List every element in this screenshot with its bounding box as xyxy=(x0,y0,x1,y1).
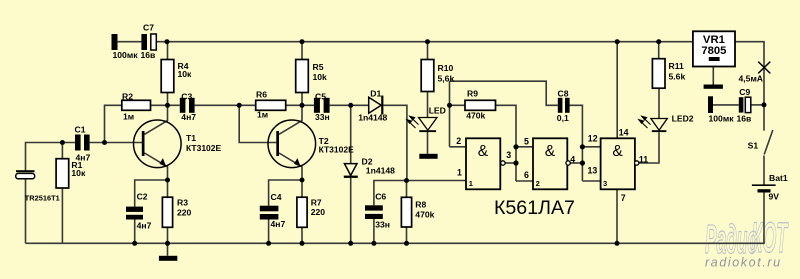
junction dots xyxy=(165,39,170,44)
wire pin5 xyxy=(516,146,533,148)
svg-text:C7: C7 xyxy=(143,23,154,33)
watermark РадиоКОТ xyxy=(705,213,789,262)
svg-text:C5: C5 xyxy=(315,92,326,102)
svg-text:R3: R3 xyxy=(177,197,188,207)
diode D1 cathode bar xyxy=(381,96,383,115)
diode D1 xyxy=(369,97,382,113)
svg-text:4н7: 4н7 xyxy=(181,112,196,122)
transistor T2 circle xyxy=(268,120,316,168)
wire C6 branch xyxy=(374,181,466,206)
LED1 triangle xyxy=(419,118,437,131)
wire LED2 anode to R11 xyxy=(658,88,660,118)
svg-text:КТ3102Е: КТ3102Е xyxy=(319,145,355,155)
capacitor C1 plates xyxy=(75,135,81,151)
capacitor C7 plates xyxy=(112,34,118,50)
wire C1 to base T1 xyxy=(90,142,142,144)
transistor T1 circle xyxy=(134,120,182,168)
wire T1 emitter xyxy=(145,153,168,180)
ground bar LED1 xyxy=(419,154,437,159)
wire T2 collector xyxy=(279,105,302,134)
svg-text:4н7: 4н7 xyxy=(271,219,286,229)
resistor R3 xyxy=(162,197,172,227)
svg-text:R7: R7 xyxy=(311,197,322,207)
svg-text:TR2516T1: TR2516T1 xyxy=(25,194,60,203)
svg-text:13: 13 xyxy=(588,166,598,176)
electrolytic C7 hollow plate xyxy=(151,34,157,50)
resistor R6 xyxy=(256,100,286,110)
capacitor C5 plates xyxy=(314,98,320,113)
wire C9 right xyxy=(751,104,764,106)
svg-text:7: 7 xyxy=(621,193,626,203)
resistor R8 xyxy=(401,197,411,227)
svg-text:R8: R8 xyxy=(415,199,426,209)
svg-text:2: 2 xyxy=(456,136,461,146)
wire R4 leads xyxy=(167,42,169,60)
wire pin2 xyxy=(450,146,467,148)
electrolytic C9 hollow plate xyxy=(745,97,751,112)
wire battery to rail xyxy=(763,193,765,244)
svg-text:R2: R2 xyxy=(122,92,133,102)
wire gate3 out to LED2 xyxy=(639,132,659,163)
wire R1 leads xyxy=(61,143,63,159)
svg-text:220: 220 xyxy=(311,207,326,217)
wire C3 right to T2 base node xyxy=(195,104,240,106)
wire R6 leads xyxy=(239,104,256,106)
svg-text:D1: D1 xyxy=(370,88,381,98)
capacitor C8 plates xyxy=(558,98,563,113)
wire R10 leads xyxy=(427,42,429,60)
wire pin12 xyxy=(582,146,600,148)
LED1 arrows xyxy=(407,116,419,128)
wire pin13 xyxy=(582,180,600,182)
wire ground stub T1 xyxy=(167,243,169,256)
svg-text:5.6k: 5.6k xyxy=(669,72,686,82)
capacitor C9 plates xyxy=(739,97,744,112)
wire T2 base xyxy=(239,105,276,142)
svg-text:220: 220 xyxy=(177,207,192,217)
resistor R11 xyxy=(652,59,665,88)
svg-text:16в: 16в xyxy=(141,50,156,60)
LED2 triangle xyxy=(651,119,667,131)
svg-text:470k: 470k xyxy=(415,210,434,220)
wire T1 emitter node to C2 xyxy=(135,180,168,207)
transistor T2 emitter arrow xyxy=(294,158,301,167)
wire osc node vertical xyxy=(449,81,451,147)
svg-text:&: & xyxy=(612,143,623,160)
resistor R2 xyxy=(122,100,151,110)
wire T2 emitter xyxy=(279,153,302,180)
wire D1 leads xyxy=(351,104,369,106)
svg-text:100мк: 100мк xyxy=(113,50,139,60)
svg-text:R5: R5 xyxy=(313,62,324,72)
gate DD1.3 output bubble xyxy=(635,161,639,165)
svg-text:R10: R10 xyxy=(438,63,454,73)
VR1 inner ground tab xyxy=(709,57,720,61)
svg-text:C8: C8 xyxy=(558,89,569,99)
resistor R10 xyxy=(421,60,434,92)
wire C9 mid xyxy=(713,104,739,106)
wire bottom rail xyxy=(26,242,765,244)
gate DD1.1 output bubble xyxy=(501,161,505,165)
wire R9 leads xyxy=(450,104,466,106)
piezo resonator TR2516T1 xyxy=(16,173,35,178)
svg-text:6: 6 xyxy=(524,170,529,180)
svg-text:12: 12 xyxy=(588,133,598,143)
wire C3 left xyxy=(168,104,180,106)
svg-text:5,6k: 5,6k xyxy=(438,73,455,83)
resistor R9 xyxy=(465,100,496,110)
svg-text:2: 2 xyxy=(536,179,540,188)
svg-text:КТ3102Е: КТ3102Е xyxy=(186,143,222,153)
svg-text:R11: R11 xyxy=(669,61,685,71)
svg-text:10к: 10к xyxy=(178,69,193,79)
svg-text:&: & xyxy=(478,143,489,160)
svg-text:LED2: LED2 xyxy=(672,114,694,124)
svg-text:C6: C6 xyxy=(375,192,386,202)
capacitor 100mk right plate xyxy=(708,96,713,113)
svg-text:33н: 33н xyxy=(315,112,330,122)
wire R2 left branch xyxy=(105,105,122,142)
svg-text:S1: S1 xyxy=(748,140,759,150)
svg-text:1: 1 xyxy=(469,179,473,188)
capacitor C4 plates xyxy=(260,206,279,212)
wire pin14 xyxy=(616,42,618,138)
svg-text:C1: C1 xyxy=(75,124,86,134)
diode D2 cathode bar xyxy=(344,176,358,178)
transistor T2 base bar xyxy=(276,131,279,156)
svg-text:3: 3 xyxy=(603,179,607,188)
wire R3 leads xyxy=(167,180,169,197)
wire T1 collector xyxy=(145,105,168,134)
gate DD1.2 xyxy=(533,138,567,189)
battery long plate xyxy=(752,184,776,186)
svg-text:0,1: 0,1 xyxy=(557,113,569,123)
wire C5 leads xyxy=(302,104,314,106)
transistor T1 base bar xyxy=(142,131,145,156)
capacitor C6 plates xyxy=(365,205,383,210)
svg-text:100мк: 100мк xyxy=(709,113,735,123)
wire R8 leads xyxy=(406,181,408,198)
LED1 cathode bar xyxy=(419,130,436,132)
wire R5 leads xyxy=(301,42,303,60)
wire VR1 out and right column xyxy=(735,42,764,131)
wire piezo column xyxy=(26,143,76,171)
ground bar VR1 xyxy=(704,85,723,89)
wire R2 right xyxy=(151,104,168,106)
svg-text:1: 1 xyxy=(457,167,462,177)
svg-text:1n4148: 1n4148 xyxy=(358,113,387,123)
wire T2 emitter node to C4 xyxy=(269,180,302,206)
svg-text:4н7: 4н7 xyxy=(137,220,152,230)
svg-text:5: 5 xyxy=(524,137,529,147)
wire VR1 ground pin xyxy=(712,67,714,85)
wire pin6 xyxy=(516,180,533,182)
wire C8 right xyxy=(570,105,583,181)
svg-text:C3: C3 xyxy=(181,92,192,102)
svg-text:9V: 9V xyxy=(769,192,780,202)
wire top rail xyxy=(156,41,693,43)
svg-text:11: 11 xyxy=(639,154,648,164)
battery short plate xyxy=(758,189,771,192)
svg-text:R6: R6 xyxy=(256,90,267,100)
wire R11 top xyxy=(658,42,660,59)
svg-text:3: 3 xyxy=(506,150,511,160)
wire D2 leads xyxy=(350,105,352,163)
svg-text:4: 4 xyxy=(570,154,575,164)
switch S1 blade xyxy=(764,130,773,155)
svg-text:7805: 7805 xyxy=(701,45,726,57)
wire LED1 cathode to bar xyxy=(427,132,429,154)
svg-text:10к: 10к xyxy=(71,168,86,178)
svg-text:C2: C2 xyxy=(137,192,148,202)
wire C7 mid xyxy=(118,41,142,43)
svg-text:10k: 10k xyxy=(313,72,328,82)
svg-text:&: & xyxy=(545,143,556,160)
svg-text:1м: 1м xyxy=(123,112,134,122)
ground symbol T1 xyxy=(159,256,177,261)
svg-text:C4: C4 xyxy=(271,192,282,202)
piezo top plate xyxy=(16,170,35,172)
gate DD1.2 output bubble xyxy=(566,161,570,165)
resistor R1 xyxy=(56,159,69,188)
resistor R7 xyxy=(297,197,307,227)
wire R7 leads xyxy=(301,180,303,197)
svg-text:LED: LED xyxy=(429,105,446,115)
transistor T1 emitter arrow xyxy=(160,158,167,167)
gate DD1.1 xyxy=(466,138,500,189)
wire gate2 out xyxy=(570,162,582,164)
capacitor C2 plates xyxy=(126,207,143,212)
LED2 cathode bar xyxy=(652,130,667,132)
capacitor C3 plates xyxy=(180,98,186,113)
svg-text:КОТ: КОТ xyxy=(751,213,789,261)
gate DD1.3 xyxy=(601,138,635,189)
svg-text:1м: 1м xyxy=(257,110,268,120)
svg-text:К561ЛА7: К561ЛА7 xyxy=(494,197,575,219)
diode D2 xyxy=(344,164,357,176)
IC VR1 7805 box xyxy=(693,31,735,66)
pin numbers xyxy=(456,127,648,203)
wire feedback top xyxy=(450,81,558,105)
svg-text:C9: C9 xyxy=(739,87,750,97)
current break X mark xyxy=(758,62,770,74)
svg-text:33н: 33н xyxy=(375,219,390,229)
svg-text:470k: 470k xyxy=(466,111,485,121)
svg-text:Bat1: Bat1 xyxy=(769,173,788,183)
resistor R5 xyxy=(296,60,309,93)
svg-text:R9: R9 xyxy=(467,88,478,98)
wire pin7 xyxy=(616,190,618,244)
svg-text:1n4148: 1n4148 xyxy=(366,165,395,175)
svg-text:T1: T1 xyxy=(186,133,196,143)
svg-text:radiokot.ru: radiokot.ru xyxy=(705,256,782,270)
svg-text:16в: 16в xyxy=(737,113,752,123)
svg-text:14: 14 xyxy=(619,127,629,137)
resistor R4 xyxy=(161,60,174,93)
wire S1 to battery xyxy=(763,156,765,185)
LED2 arrows xyxy=(639,116,651,128)
wire gate1 out xyxy=(505,162,516,164)
svg-text:4,5мА: 4,5мА xyxy=(739,73,764,83)
